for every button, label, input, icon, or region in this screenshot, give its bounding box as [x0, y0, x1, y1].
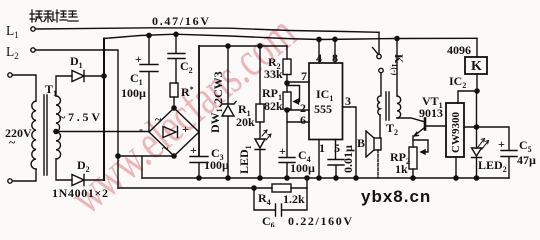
svg-text:100µ: 100µ [204, 158, 229, 172]
capacitor 0.01u pin5 [328, 140, 344, 179]
svg-text:8: 8 [332, 51, 338, 65]
wire VT1 base to CW9300 [426, 125, 446, 127]
wire pin4 [318, 40, 320, 64]
svg-text:82k: 82k [264, 99, 283, 113]
label 振铃信号 (ringing signal) pseudo-CJK [30, 10, 78, 22]
zener DW1 2CW3 [220, 46, 236, 178]
svg-text:47µ: 47µ [517, 153, 536, 167]
resistor R* [170, 83, 178, 97]
svg-text:~7.5V: ~7.5V [59, 110, 100, 124]
svg-text:5: 5 [334, 141, 340, 155]
wire pin2 [287, 109, 309, 111]
svg-text:100µ: 100µ [290, 161, 315, 175]
wire L1 top line [35, 28, 379, 33]
terminal L1 [31, 27, 35, 31]
transformer T2 primary winding [378, 96, 380, 115]
svg-text:CW9300: CW9300 [450, 112, 462, 153]
svg-text:~: ~ [9, 135, 16, 149]
diode D2 [72, 175, 84, 186]
wire pin8 [334, 40, 336, 64]
node rail-pin8 [333, 37, 337, 41]
svg-text:LED2: LED2 [478, 158, 507, 174]
svg-text:2CW3: 2CW3 [211, 71, 225, 104]
svg-text:-: - [139, 122, 143, 136]
transformer T1 primary winding [31, 101, 36, 169]
potentiometer RP1 82k [283, 92, 291, 109]
watermark www.elecfans.com [59, 4, 306, 224]
node DW1 gnd [226, 176, 230, 180]
svg-text:3: 3 [345, 94, 351, 108]
resistor R2 33k [286, 46, 288, 59]
wire node to CW9300 top [458, 91, 477, 103]
node pin7 [285, 81, 289, 85]
svg-text:20k: 20k [236, 115, 255, 129]
transformer T2 secondary winding [397, 96, 401, 118]
svg-text:0.01µ: 0.01µ [341, 145, 355, 173]
wire T2 secondary top to rail [396, 39, 398, 97]
IC U1 555 timer box [309, 63, 343, 140]
svg-text:33k: 33k [264, 67, 283, 81]
node pin3 gnd [354, 176, 358, 180]
wire pin7 [287, 81, 309, 83]
node rail-T2 [395, 36, 399, 40]
wire pin1 [318, 140, 320, 179]
LED1 [255, 139, 265, 178]
svg-text:+: + [498, 137, 505, 151]
transformer T2 core [386, 92, 389, 120]
capacitor C3 [190, 157, 208, 179]
capacitor C1 [140, 35, 158, 131]
capacitor C6 0.22/160V [254, 188, 307, 216]
svg-text:+: + [135, 52, 142, 66]
wire T1 center tap [54, 129, 58, 133]
node wireB-DW1 [226, 44, 230, 48]
wire 220V top [12, 75, 36, 101]
LED2 [476, 91, 478, 148]
svg-text:555: 555 [314, 102, 332, 116]
wire rail A [104, 34, 477, 39]
svg-text:1N4001×2: 1N4001×2 [52, 186, 108, 200]
svg-text:+: + [279, 144, 286, 158]
wire T1 secondary bottom to D2 [56, 159, 72, 180]
transformer T1 core [44, 95, 47, 175]
svg-text:LED1: LED1 [237, 145, 253, 174]
svg-text:7: 7 [301, 69, 307, 83]
node rail-C2 [174, 32, 178, 36]
svg-text:+: + [182, 122, 189, 136]
potentiometer RP2 1k [409, 147, 417, 169]
resistor R4 1.2k [272, 184, 291, 192]
svg-text:~: ~ [155, 112, 162, 126]
svg-text:ybx8.cn: ybx8.cn [361, 187, 431, 206]
svg-text:+: + [190, 143, 197, 157]
svg-text:B: B [357, 136, 365, 150]
node C4 gnd [285, 176, 289, 180]
diode D1 [72, 71, 84, 82]
wire B top [199, 45, 287, 47]
svg-text:K: K [471, 59, 482, 74]
node L2-gnd [116, 154, 120, 158]
node rail-C1 [147, 33, 151, 37]
transformer T1 secondary winding [56, 96, 61, 159]
node wireB-R1 [258, 44, 262, 48]
speaker B [379, 115, 381, 138]
capacitor C2 [168, 34, 185, 83]
resistor R1 20k [259, 46, 261, 104]
wire lower rail [118, 187, 272, 189]
node LED1 gnd [258, 176, 262, 180]
wire pin6 [287, 121, 309, 123]
terminal L2 [31, 48, 35, 52]
wire emitter-wiper bracket [413, 140, 428, 154]
node D1 cathode [102, 74, 106, 78]
node relay-VT1 [475, 89, 479, 93]
node C6-R4 left [252, 186, 256, 190]
relay coil box K [476, 38, 478, 57]
wire pin3 [343, 107, 357, 178]
svg-text:0.22/160V: 0.22/160V [288, 214, 352, 227]
svg-text:~: ~ [162, 141, 169, 155]
wire bottom rail [142, 177, 509, 179]
wire T1 secondary top to D1 [56, 76, 72, 96]
capacitor C5 47u [464, 127, 517, 178]
IC2 CW9300 box [446, 103, 464, 157]
bridge rectifier [149, 108, 199, 156]
transformer T1 primary terminal bottom [8, 179, 12, 183]
wire D1/D2 cathode vertical [103, 39, 105, 181]
VT1 emitter [414, 128, 424, 136]
svg-text:1: 1 [319, 141, 325, 155]
svg-text:1k: 1k [395, 162, 408, 176]
svg-text:100µ: 100µ [121, 86, 146, 100]
svg-text:6: 6 [300, 113, 306, 127]
wire R4 to bottom rail [291, 178, 307, 188]
wire +V right vertex riser [198, 46, 200, 156]
wire T2 secondary bottom to VT1 collector [397, 118, 424, 122]
svg-text:0.47/16V: 0.47/16V [152, 14, 209, 28]
svg-text:9013: 9013 [419, 106, 443, 120]
wire ground riser [141, 156, 143, 178]
node bridge bottom [172, 154, 176, 158]
wire 220V bottom [12, 169, 36, 181]
svg-text:4: 4 [316, 51, 322, 65]
bridge diode symbol [163, 127, 178, 138]
switch K1 [378, 32, 380, 54]
node pin2 [285, 108, 289, 112]
node rail-pin4 [317, 37, 321, 41]
transistor VT1 9013 [424, 119, 427, 130]
svg-text:1.2k: 1.2k [283, 192, 305, 206]
node R4 riser [305, 176, 309, 180]
node bridge top [172, 106, 176, 110]
capacitor C4 100u [279, 158, 295, 179]
node C3 gnd [197, 176, 201, 180]
wire bridge bottom to ground [118, 155, 174, 157]
transformer T1 primary terminal top [8, 73, 12, 77]
svg-text:4096: 4096 [447, 43, 471, 57]
wire L2 [35, 50, 118, 188]
